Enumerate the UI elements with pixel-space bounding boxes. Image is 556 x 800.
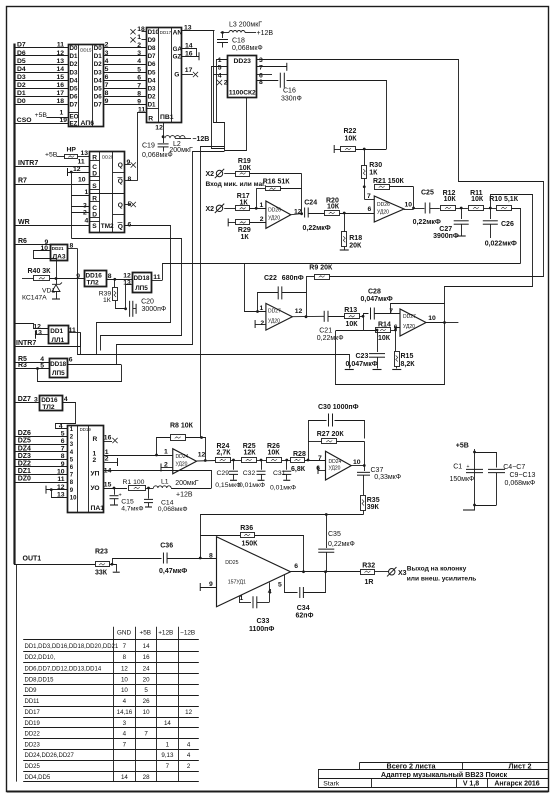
svg-text:DD23: DD23 xyxy=(234,58,252,65)
svg-text:C20: C20 xyxy=(141,299,154,306)
svg-text:DD18: DD18 xyxy=(134,275,150,282)
svg-text:13: 13 xyxy=(56,58,64,65)
svg-text:Q: Q xyxy=(118,162,123,169)
svg-text:12: 12 xyxy=(56,50,64,57)
svg-text:D2: D2 xyxy=(148,93,156,100)
svg-text:D9: D9 xyxy=(148,37,156,44)
svg-text:C24: C24 xyxy=(304,199,317,206)
svg-text:DD22: DD22 xyxy=(25,732,41,738)
svg-text:5: 5 xyxy=(61,430,65,437)
svg-text:DD16: DD16 xyxy=(41,397,58,404)
svg-text:4: 4 xyxy=(137,58,141,65)
svg-text:2: 2 xyxy=(260,216,264,223)
svg-text:3900пФ: 3900пФ xyxy=(433,233,459,240)
svg-text:6: 6 xyxy=(368,206,372,213)
svg-text:12: 12 xyxy=(185,709,192,716)
svg-text:X2: X2 xyxy=(206,206,215,213)
svg-text:4: 4 xyxy=(218,72,222,79)
svg-text:10К: 10К xyxy=(268,450,281,457)
svg-text:18: 18 xyxy=(137,26,145,33)
svg-text:4: 4 xyxy=(187,752,191,759)
svg-text:R35: R35 xyxy=(367,497,380,504)
svg-text:24: 24 xyxy=(143,665,150,672)
svg-text:DD1: DD1 xyxy=(50,328,63,335)
svg-text:D7: D7 xyxy=(94,101,102,108)
svg-text:ТЛ2: ТЛ2 xyxy=(87,280,99,287)
svg-text:D0: D0 xyxy=(94,45,102,52)
svg-text:R3: R3 xyxy=(18,362,27,369)
svg-text:R32: R32 xyxy=(362,562,375,569)
svg-text:DD2,DD10,: DD2,DD10, xyxy=(25,655,56,661)
svg-text:D1: D1 xyxy=(17,90,26,97)
svg-text:3: 3 xyxy=(34,396,38,403)
svg-text:ЛА3: ЛА3 xyxy=(53,254,66,261)
svg-text:X2: X2 xyxy=(206,171,215,178)
svg-text:2: 2 xyxy=(93,457,97,464)
svg-text:1R: 1R xyxy=(365,579,374,586)
svg-text:ЛП5: ЛП5 xyxy=(135,285,148,292)
svg-text:X3: X3 xyxy=(398,570,407,577)
svg-text:+12В: +12В xyxy=(257,30,274,37)
svg-text:C26: C26 xyxy=(501,221,514,228)
svg-text:GND: GND xyxy=(117,630,132,637)
svg-text:−12В: −12В xyxy=(192,136,209,143)
svg-text:28: 28 xyxy=(143,774,150,781)
svg-text:3: 3 xyxy=(137,50,141,57)
svg-text:20К: 20К xyxy=(349,243,362,250)
svg-text:4: 4 xyxy=(187,741,191,748)
svg-text:C27: C27 xyxy=(439,226,452,233)
svg-text:13: 13 xyxy=(81,150,89,157)
svg-text:9: 9 xyxy=(209,581,213,588)
svg-text:C19: C19 xyxy=(142,142,155,149)
svg-text:4: 4 xyxy=(123,698,127,705)
svg-text:18: 18 xyxy=(56,98,64,105)
svg-text:1100пФ: 1100пФ xyxy=(249,626,274,633)
svg-text:R: R xyxy=(148,115,153,122)
svg-text:D4: D4 xyxy=(148,77,156,84)
svg-text:C28: C28 xyxy=(368,289,381,296)
svg-text:D6: D6 xyxy=(70,93,78,100)
svg-text:12: 12 xyxy=(198,452,206,459)
svg-text:C36: C36 xyxy=(160,543,173,550)
svg-text:4: 4 xyxy=(70,450,74,456)
svg-text:DD25: DD25 xyxy=(25,764,41,770)
svg-text:1: 1 xyxy=(240,595,244,602)
svg-text:УД20: УД20 xyxy=(268,216,280,222)
svg-text:0,47мкФ: 0,47мкФ xyxy=(159,568,187,575)
svg-text:D2: D2 xyxy=(17,82,26,89)
svg-text:4,7мкФ: 4,7мкФ xyxy=(121,505,143,512)
svg-text:1: 1 xyxy=(166,741,170,748)
svg-text:R28: R28 xyxy=(293,451,306,458)
svg-text:19: 19 xyxy=(60,117,68,124)
svg-text:6,8К: 6,8К xyxy=(291,466,306,473)
svg-text:2: 2 xyxy=(187,763,191,770)
svg-text:8: 8 xyxy=(137,90,141,97)
svg-text:+5В: +5В xyxy=(45,152,58,159)
svg-text:R: R xyxy=(92,155,97,162)
svg-text:0,22мкФ: 0,22мкФ xyxy=(413,219,441,226)
svg-text:0,15мкФ: 0,15мкФ xyxy=(215,482,241,489)
svg-text:D5: D5 xyxy=(70,85,78,92)
svg-text:D7: D7 xyxy=(70,101,78,108)
svg-text:DD24: DD24 xyxy=(329,459,342,465)
svg-text:DD27: DD27 xyxy=(268,309,281,315)
svg-text:DD26: DD26 xyxy=(377,202,390,208)
svg-text:АП6: АП6 xyxy=(81,120,95,127)
svg-text:C31: C31 xyxy=(273,470,286,477)
svg-text:C29: C29 xyxy=(217,470,230,477)
svg-text:6: 6 xyxy=(70,465,74,471)
svg-text:20: 20 xyxy=(143,676,150,683)
svg-text:+: + xyxy=(467,464,470,470)
svg-text:8: 8 xyxy=(70,480,74,486)
svg-text:3: 3 xyxy=(123,720,127,727)
svg-text:G: G xyxy=(174,72,179,79)
svg-text:DD8,DD15: DD8,DD15 xyxy=(25,677,55,683)
svg-text:D10: D10 xyxy=(148,29,160,36)
svg-text:0,022мкФ: 0,022мкФ xyxy=(485,241,517,248)
svg-text:C32: C32 xyxy=(243,470,256,477)
svg-text:10К: 10К xyxy=(346,321,359,328)
svg-text:2: 2 xyxy=(105,42,109,49)
svg-text:R23: R23 xyxy=(95,549,108,556)
svg-text:8: 8 xyxy=(61,453,65,460)
svg-text:5: 5 xyxy=(70,457,74,463)
svg-text:10: 10 xyxy=(143,709,150,716)
svg-text:DZ2: DZ2 xyxy=(18,461,31,468)
svg-text:D0: D0 xyxy=(70,45,78,52)
svg-text:Q: Q xyxy=(118,178,123,185)
svg-text:1: 1 xyxy=(85,189,89,196)
svg-text:0,33мкФ: 0,33мкФ xyxy=(374,474,401,481)
svg-text:0,068мкФ: 0,068мкФ xyxy=(505,480,536,487)
svg-text:DZ5: DZ5 xyxy=(18,438,31,445)
svg-text:62пФ: 62пФ xyxy=(296,613,314,620)
svg-text:DD23: DD23 xyxy=(25,742,41,748)
svg-text:16: 16 xyxy=(56,82,64,89)
svg-text:7: 7 xyxy=(144,731,148,738)
svg-text:R15: R15 xyxy=(401,353,414,360)
svg-text:L1: L1 xyxy=(161,479,169,486)
svg-text:8: 8 xyxy=(123,654,127,661)
svg-text:C21: C21 xyxy=(319,328,332,335)
svg-text:3: 3 xyxy=(83,203,87,210)
svg-text:R7: R7 xyxy=(18,178,27,185)
svg-text:DD25: DD25 xyxy=(225,560,238,566)
svg-text:5: 5 xyxy=(40,363,44,370)
svg-text:9: 9 xyxy=(76,273,80,280)
svg-text:УД20: УД20 xyxy=(377,210,389,216)
svg-text:6: 6 xyxy=(61,438,65,445)
svg-text:УД20: УД20 xyxy=(329,466,341,472)
svg-text:157УД1: 157УД1 xyxy=(228,580,246,586)
svg-text:2: 2 xyxy=(137,42,141,49)
svg-text:DD17: DD17 xyxy=(25,710,41,716)
svg-text:0,047мкФ: 0,047мкФ xyxy=(346,361,378,368)
svg-text:R18: R18 xyxy=(349,235,362,242)
svg-text:D3: D3 xyxy=(94,69,102,76)
svg-text:C15: C15 xyxy=(121,498,134,505)
svg-text:6: 6 xyxy=(294,563,298,570)
svg-text:10: 10 xyxy=(353,459,361,466)
svg-text:D3: D3 xyxy=(70,69,78,76)
svg-text:ПВ1: ПВ1 xyxy=(160,114,174,121)
svg-text:DD20: DD20 xyxy=(102,155,114,160)
svg-text:680пФ: 680пФ xyxy=(282,275,304,282)
svg-text:D3: D3 xyxy=(17,74,26,81)
svg-text:1: 1 xyxy=(164,448,168,455)
svg-text:Ангарск 2016: Ангарск 2016 xyxy=(494,781,539,788)
svg-text:GZ: GZ xyxy=(173,54,182,61)
svg-text:4: 4 xyxy=(105,58,109,65)
svg-text:12К: 12К xyxy=(244,450,257,457)
svg-text:2: 2 xyxy=(224,80,228,87)
svg-text:R: R xyxy=(92,195,97,202)
svg-text:1: 1 xyxy=(260,305,264,312)
svg-text:8: 8 xyxy=(70,243,74,250)
svg-text:C37: C37 xyxy=(371,467,384,474)
svg-text:Q: Q xyxy=(118,224,123,231)
svg-text:DD18: DD18 xyxy=(50,361,66,368)
svg-text:10: 10 xyxy=(428,315,436,322)
svg-text:10: 10 xyxy=(70,495,77,501)
svg-text:8: 8 xyxy=(105,90,109,97)
svg-text:0,068мкФ: 0,068мкФ xyxy=(158,506,188,513)
svg-text:7: 7 xyxy=(166,763,170,770)
svg-text:11: 11 xyxy=(153,274,160,281)
svg-text:DD17: DD17 xyxy=(160,30,172,35)
svg-text:0,22мкФ: 0,22мкФ xyxy=(317,335,344,342)
svg-text:13: 13 xyxy=(184,25,192,32)
svg-text:C34: C34 xyxy=(297,605,310,612)
svg-text:R36: R36 xyxy=(240,525,253,532)
svg-text:2: 2 xyxy=(105,456,109,463)
svg-text:10: 10 xyxy=(78,177,86,184)
svg-text:7: 7 xyxy=(61,446,65,453)
svg-text:3000пФ: 3000пФ xyxy=(142,306,167,313)
svg-text:DZ4: DZ4 xyxy=(18,445,31,452)
svg-text:DD21: DD21 xyxy=(52,246,64,251)
svg-text:11: 11 xyxy=(78,158,85,165)
svg-text:D6: D6 xyxy=(17,50,26,57)
svg-text:14: 14 xyxy=(164,720,171,727)
svg-text:9: 9 xyxy=(61,461,65,468)
svg-text:DD6,DD7,DD12,DD13,DD14: DD6,DD7,DD12,DD13,DD14 xyxy=(25,666,102,672)
svg-text:5: 5 xyxy=(218,64,222,71)
svg-text:39К: 39К xyxy=(367,504,380,511)
svg-text:0,22мкФ: 0,22мкФ xyxy=(328,541,355,548)
svg-text:16: 16 xyxy=(104,434,112,441)
svg-text:12: 12 xyxy=(121,665,128,672)
svg-text:D8: D8 xyxy=(148,45,156,52)
svg-text:DD24,DD26,DD27: DD24,DD26,DD27 xyxy=(25,753,75,759)
svg-text:8,2К: 8,2К xyxy=(401,361,416,368)
svg-text:DD11: DD11 xyxy=(25,699,41,705)
svg-text:R13: R13 xyxy=(344,307,357,314)
svg-text:AN: AN xyxy=(173,30,183,37)
svg-text:150К: 150К xyxy=(242,541,259,548)
svg-text:Адаптер музыкальный ВВ23 Поиск: Адаптер музыкальный ВВ23 Поиск xyxy=(381,770,508,779)
svg-text:R22: R22 xyxy=(344,128,357,135)
svg-text:8: 8 xyxy=(209,553,213,560)
svg-text:C22: C22 xyxy=(264,275,277,282)
svg-text:10К: 10К xyxy=(327,203,340,210)
svg-text:ПА1: ПА1 xyxy=(91,505,105,512)
svg-text:17: 17 xyxy=(185,67,193,74)
svg-text:0,068мкФ: 0,068мкФ xyxy=(232,45,263,52)
svg-text:10: 10 xyxy=(121,687,128,694)
svg-text:C9−C13: C9−C13 xyxy=(510,472,536,479)
svg-text:9: 9 xyxy=(137,98,141,105)
svg-text:D2: D2 xyxy=(94,61,102,68)
svg-text:КС147А: КС147А xyxy=(22,295,47,302)
svg-text:УД20: УД20 xyxy=(403,324,415,330)
svg-text:V 1,8: V 1,8 xyxy=(463,781,479,788)
svg-text:4: 4 xyxy=(268,589,272,596)
svg-text:7: 7 xyxy=(389,308,393,315)
svg-text:DD27: DD27 xyxy=(403,314,416,320)
svg-text:INTR7: INTR7 xyxy=(16,340,36,347)
svg-text:Вход мик. или маг.: Вход мик. или маг. xyxy=(206,181,267,188)
svg-text:17: 17 xyxy=(56,90,64,97)
svg-text:11: 11 xyxy=(57,42,64,49)
svg-text:0,047мкФ: 0,047мкФ xyxy=(361,296,393,303)
svg-text:GA: GA xyxy=(173,46,183,53)
svg-text:1: 1 xyxy=(260,202,264,209)
svg-text:33К: 33К xyxy=(95,570,108,577)
svg-text:7: 7 xyxy=(367,193,371,200)
svg-text:S: S xyxy=(92,183,97,190)
svg-text:OUT1: OUT1 xyxy=(23,555,42,562)
svg-text:4: 4 xyxy=(59,423,63,430)
svg-text:7: 7 xyxy=(318,455,322,462)
svg-text:8: 8 xyxy=(108,273,112,280)
svg-text:DD4,DD5: DD4,DD5 xyxy=(25,775,51,781)
svg-text:10: 10 xyxy=(405,202,413,209)
svg-text:УП: УП xyxy=(91,470,100,477)
svg-text:ТЛ2: ТЛ2 xyxy=(42,404,54,411)
svg-text:L3 200мкГ: L3 200мкГ xyxy=(229,22,262,29)
svg-text:12: 12 xyxy=(73,166,81,173)
svg-text:C35: C35 xyxy=(328,531,341,538)
svg-text:3: 3 xyxy=(259,57,263,64)
svg-text:R40 3К: R40 3К xyxy=(28,268,52,275)
svg-text:+5В: +5В xyxy=(456,443,469,450)
svg-text:2: 2 xyxy=(260,320,264,327)
svg-text:HP: HP xyxy=(67,147,77,154)
svg-text:R1 100: R1 100 xyxy=(123,479,145,486)
svg-text:D4: D4 xyxy=(70,77,78,84)
svg-text:9: 9 xyxy=(127,159,131,166)
svg-text:D4: D4 xyxy=(17,66,26,73)
svg-text:1: 1 xyxy=(60,110,64,117)
svg-text:C18: C18 xyxy=(232,38,245,45)
svg-text:12: 12 xyxy=(155,124,163,131)
svg-text:6: 6 xyxy=(394,324,398,331)
svg-text:WR: WR xyxy=(18,219,30,226)
svg-text:C33: C33 xyxy=(257,618,270,625)
svg-text:10К: 10К xyxy=(239,165,252,172)
svg-text:7: 7 xyxy=(259,64,263,71)
svg-text:D6: D6 xyxy=(148,61,156,68)
svg-text:R10 5,1К: R10 5,1К xyxy=(489,196,519,203)
svg-text:+12В: +12В xyxy=(158,630,173,637)
svg-text:1: 1 xyxy=(70,427,74,433)
svg-text:D1: D1 xyxy=(94,53,102,60)
svg-text:D5: D5 xyxy=(148,69,156,76)
svg-text:C25: C25 xyxy=(421,190,434,197)
svg-text:−12В: −12В xyxy=(180,630,195,637)
svg-text:5: 5 xyxy=(137,66,141,73)
svg-text:2: 2 xyxy=(83,210,87,217)
svg-text:D3: D3 xyxy=(148,85,156,92)
svg-text:6: 6 xyxy=(128,221,132,228)
svg-text:C1: C1 xyxy=(453,464,462,471)
svg-text:УД20: УД20 xyxy=(176,462,188,468)
svg-text:0,068мкФ: 0,068мкФ xyxy=(142,152,173,159)
svg-text:R16 51К: R16 51К xyxy=(263,179,291,186)
svg-text:D: D xyxy=(92,171,97,178)
svg-text:R19: R19 xyxy=(238,158,251,165)
svg-text:10: 10 xyxy=(121,676,128,683)
svg-text:или внеш. усилитель: или внеш. усилитель xyxy=(407,576,477,583)
svg-text:10К: 10К xyxy=(378,335,391,342)
svg-text:D1: D1 xyxy=(148,101,156,108)
svg-text:Лист 2: Лист 2 xyxy=(509,762,532,771)
svg-text:5: 5 xyxy=(105,66,109,73)
svg-text:0,01мкФ: 0,01мкФ xyxy=(239,482,265,489)
svg-text:УД20: УД20 xyxy=(268,319,280,325)
svg-text:0,22мкФ: 0,22мкФ xyxy=(303,225,331,232)
svg-text:C4−C7: C4−C7 xyxy=(503,464,525,471)
svg-text:ЛП5: ЛП5 xyxy=(52,370,65,377)
svg-text:DD19: DD19 xyxy=(80,427,92,432)
svg-text:D1: D1 xyxy=(70,53,78,60)
svg-text:7: 7 xyxy=(105,82,109,89)
svg-text:C30 1000пФ: C30 1000пФ xyxy=(318,404,359,411)
svg-text:3: 3 xyxy=(70,442,74,448)
svg-text:1100СК2: 1100СК2 xyxy=(229,90,256,97)
svg-text:14: 14 xyxy=(56,66,64,73)
svg-text:1К: 1К xyxy=(103,297,111,304)
svg-text:330пФ: 330пФ xyxy=(281,96,302,103)
svg-text:200мкГ: 200мкГ xyxy=(175,480,199,487)
svg-text:16: 16 xyxy=(143,654,150,661)
svg-text:10К: 10К xyxy=(345,136,358,143)
svg-text:DD24: DD24 xyxy=(176,454,189,460)
svg-text:D5: D5 xyxy=(17,58,26,65)
svg-text:DD1,DD3,DD16,DD18,DD20,DD21: DD1,DD3,DD16,DD18,DD20,DD21 xyxy=(25,644,119,650)
svg-text:INTR7: INTR7 xyxy=(18,160,38,167)
svg-text:DD16: DD16 xyxy=(86,272,103,279)
svg-text:1К: 1К xyxy=(369,170,378,177)
svg-text:+5В: +5В xyxy=(35,112,48,119)
svg-text:13: 13 xyxy=(123,279,131,286)
svg-text:DZ6: DZ6 xyxy=(18,430,31,437)
svg-text:150мкФ: 150мкФ xyxy=(450,476,475,483)
svg-text:Выход на колонку: Выход на колонку xyxy=(407,566,467,573)
svg-text:C16: C16 xyxy=(283,88,296,95)
svg-text:5: 5 xyxy=(144,687,148,694)
svg-text:11: 11 xyxy=(57,476,64,483)
svg-text:D0: D0 xyxy=(17,98,26,105)
svg-text:R30: R30 xyxy=(369,162,382,169)
svg-text:5: 5 xyxy=(278,582,282,589)
svg-text:26: 26 xyxy=(143,698,150,705)
svg-text:7: 7 xyxy=(123,741,127,748)
